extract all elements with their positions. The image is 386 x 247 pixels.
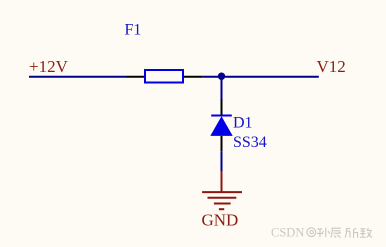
diode D1 triangle [210,116,232,136]
ground GND stem [221,172,223,192]
ground bar 2 [208,197,237,199]
fuse F1 body [145,70,183,83]
svg-text:V12: V12 [317,57,346,76]
diode D1 anode pin [221,136,223,151]
svg-text:SS34: SS34 [233,134,267,151]
svg-text:+12V: +12V [29,57,69,76]
svg-text:F1: F1 [125,22,142,39]
wire: +12V horizontal net, left segment [29,76,127,78]
ground bar 3 [214,203,231,205]
diode D1 cathode pin [221,99,223,116]
wire: V12 horizontal net, right segment [203,76,319,78]
diode D1 cathode bar [211,115,232,117]
watermark @ sign [307,228,316,237]
svg-text:CSDN: CSDN [271,225,304,239]
junction dot [218,73,225,80]
svg-text:D1: D1 [233,115,253,132]
fuse F1 right pin [184,76,203,78]
ground bar 1 [202,191,242,193]
watermark CJK glyph placeholders [317,228,372,238]
fuse F1 left pin [127,76,145,78]
ground bar 4 [219,208,224,210]
wire: vertical net from junction to diode D1 [221,77,223,99]
wire: vertical net from diode to GND port [221,151,223,172]
svg-text:GND: GND [202,211,239,230]
